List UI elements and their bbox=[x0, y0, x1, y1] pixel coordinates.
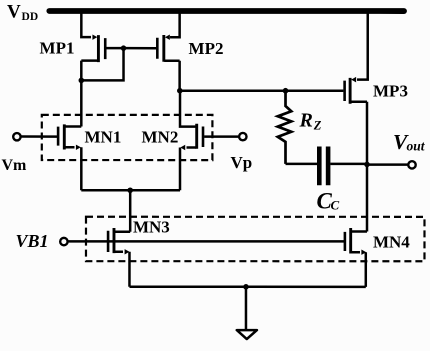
svg-text:MN2: MN2 bbox=[142, 127, 179, 146]
svg-text:Vp: Vp bbox=[231, 153, 253, 172]
wire gate net MP1-MP2 bbox=[106, 47, 156, 50]
wire tail to MN3 drain bbox=[129, 190, 132, 232]
svg-text:out: out bbox=[407, 138, 426, 153]
svg-text:MP3: MP3 bbox=[373, 81, 408, 100]
wire MN3 source down bbox=[128, 252, 131, 287]
wire MN1 source down bbox=[80, 147, 83, 190]
wire diode connection MP1 bbox=[81, 48, 123, 80]
ground bbox=[237, 330, 257, 339]
wire MP2 drain down bbox=[178, 61, 181, 91]
svg-text:VB1: VB1 bbox=[15, 231, 48, 251]
svg-text:MP1: MP1 bbox=[40, 38, 75, 57]
transistor MN4 bbox=[345, 228, 367, 255]
svg-text:V: V bbox=[7, 1, 21, 22]
node ground tap bbox=[243, 284, 249, 290]
svg-text:R: R bbox=[299, 110, 313, 132]
wire RZ to CC bbox=[286, 163, 318, 166]
wire to MP3 gate bbox=[180, 89, 344, 92]
wire MP1 source from VDD bbox=[81, 11, 91, 37]
dashed box differential pair bbox=[42, 115, 213, 160]
transistor MN2 bbox=[180, 124, 203, 151]
capacitor CC bbox=[319, 147, 328, 186]
wire CC to output bbox=[330, 163, 367, 166]
svg-text:C: C bbox=[330, 197, 339, 212]
wire tail bbox=[81, 189, 180, 192]
node tail bbox=[127, 187, 133, 193]
svg-text:MN4: MN4 bbox=[373, 232, 410, 251]
svg-text:MN1: MN1 bbox=[85, 127, 122, 146]
node second-stage gate bbox=[177, 88, 183, 94]
svg-text:MN3: MN3 bbox=[133, 217, 170, 236]
wire MP1 drain down to node bbox=[80, 61, 83, 81]
wire MP2 source from VDD bbox=[170, 11, 180, 37]
svg-text:Z: Z bbox=[313, 118, 322, 132]
transistor MP3 bbox=[345, 77, 367, 104]
power rail VDD bbox=[49, 8, 404, 14]
wire VB1 bias line to MN3 and MN4 gates bbox=[68, 240, 344, 243]
svg-text:DD: DD bbox=[22, 11, 39, 23]
wire ground rail bbox=[129, 286, 365, 289]
wire MN2 source down bbox=[179, 147, 182, 190]
transistor MP2 bbox=[157, 34, 179, 61]
node gate-drain tie bbox=[121, 45, 127, 51]
svg-text:MP2: MP2 bbox=[189, 39, 224, 58]
wire MN2 gate to Vp bbox=[204, 135, 239, 138]
wire ground stem bbox=[245, 287, 248, 330]
terminal Vp bbox=[239, 133, 246, 140]
node MP1 drain / MN1 drain bbox=[79, 78, 85, 84]
wire MP3 drain down to output bbox=[366, 102, 369, 232]
dashed box bias mirror bbox=[86, 217, 425, 261]
wire MN1 drain up bbox=[80, 80, 83, 126]
wire Vm to MN1 gate bbox=[21, 135, 57, 138]
wire output to terminal bbox=[367, 163, 408, 166]
node output bbox=[364, 162, 370, 168]
terminal Vout bbox=[408, 161, 415, 168]
wire MP3 source from VDD bbox=[357, 11, 368, 80]
resistor RZ bbox=[278, 91, 292, 164]
wire MN4 source down bbox=[365, 252, 368, 287]
terminal VB1 bbox=[60, 238, 67, 245]
svg-text:Vm: Vm bbox=[2, 157, 28, 174]
wire MN2 drain up bbox=[180, 91, 196, 127]
terminal Vm bbox=[13, 133, 20, 140]
transistor MP1 bbox=[81, 34, 105, 62]
transistor MN1 bbox=[58, 124, 81, 150]
transistor MN3 bbox=[108, 228, 130, 255]
node RZ tap bbox=[283, 88, 289, 94]
